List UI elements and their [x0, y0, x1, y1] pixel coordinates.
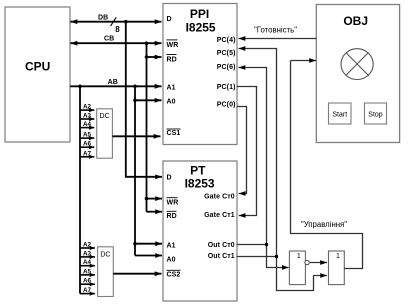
wire A4 upper	[80, 121, 94, 128]
node CB junction	[145, 41, 149, 45]
svg-text:A6: A6	[83, 141, 92, 148]
wire Upravlinnia control to OBJ	[291, 61, 363, 269]
node DB junction	[124, 20, 128, 24]
wire AB vertical to DC decoders	[79, 86, 81, 293]
wire A2 upper	[80, 104, 94, 111]
svg-text:A0: A0	[167, 99, 176, 106]
wire PC(1) to Gate Ct1	[237, 87, 257, 216]
node PT WR junction	[145, 197, 149, 201]
svg-text:1: 1	[336, 253, 340, 260]
decoder DC2	[98, 247, 114, 297]
wire bubble to gate DD2	[310, 262, 327, 264]
svg-text:I8253: I8253	[185, 176, 215, 190]
wire to PT A0	[135, 255, 162, 257]
PPI box U1	[163, 4, 237, 145]
wire Gotovnist PC(4) from OBJ	[239, 25, 317, 38]
wire A5 upper	[80, 132, 94, 139]
svg-text:"Готовність": "Готовність"	[254, 25, 297, 34]
Stop button	[365, 103, 387, 124]
wire A7 lower	[80, 287, 95, 294]
wire to PT WR	[147, 198, 163, 200]
svg-text:Gate Ст1: Gate Ст1	[204, 212, 235, 219]
wire CB vertical	[146, 43, 148, 212]
svg-text:A3: A3	[83, 113, 92, 120]
wire to PPI A0	[135, 99, 162, 101]
svg-text:A1: A1	[167, 84, 176, 91]
wire AB vertical to A1 A0	[134, 86, 136, 255]
svg-text:RD: RD	[167, 56, 177, 63]
svg-text:CPU: CPU	[25, 60, 50, 74]
svg-text:1: 1	[297, 253, 301, 260]
svg-text:A5: A5	[83, 268, 92, 275]
wire A3 lower	[80, 250, 95, 257]
svg-text:PC(5): PC(5)	[217, 50, 236, 57]
PT pin CS2	[167, 270, 181, 278]
svg-text:PC(4): PC(4)	[217, 37, 236, 44]
wire PC(0) to Gate Ct0	[237, 107, 247, 194]
svg-text:PC(1): PC(1)	[217, 84, 236, 91]
svg-text:A6: A6	[83, 278, 92, 285]
PPI pin RD	[167, 55, 177, 64]
svg-text:A3: A3	[83, 250, 92, 257]
wire PC(6) net	[239, 68, 289, 268]
OBJ box	[316, 5, 399, 143]
svg-text:Out Ст0: Out Ст0	[208, 242, 235, 249]
svg-text:Stop: Stop	[368, 112, 383, 119]
svg-text:DC: DC	[100, 113, 110, 120]
node AB junction right	[133, 85, 137, 89]
PPI pin WR	[167, 40, 179, 49]
decoder DC1	[97, 109, 113, 158]
node PPI RD junction	[145, 55, 149, 59]
wire A6 upper	[80, 141, 94, 148]
Start button	[329, 103, 352, 124]
wire to PT RD	[147, 211, 163, 213]
bus width slash 8	[111, 17, 121, 34]
svg-text:A5: A5	[83, 132, 92, 139]
wire DB bus	[71, 14, 162, 21]
svg-text:A4: A4	[83, 259, 92, 266]
gate DD2 OR	[329, 251, 345, 285]
svg-text:DC: DC	[100, 251, 110, 258]
svg-text:I8255: I8255	[186, 20, 216, 34]
svg-text:PC(6): PC(6)	[217, 64, 236, 71]
svg-text:A1: A1	[167, 242, 176, 249]
wire A6 lower	[80, 278, 95, 285]
svg-text:PT: PT	[190, 163, 206, 177]
wire CS2 select	[113, 273, 161, 275]
node Out Ct1 junction	[275, 255, 278, 258]
wire PC(5) net	[239, 49, 328, 291]
wire to PT A1	[135, 243, 162, 245]
svg-text:OBJ: OBJ	[343, 14, 368, 28]
wire A7 upper	[80, 150, 94, 157]
svg-text:DB: DB	[98, 14, 108, 21]
svg-text:WR: WR	[167, 42, 179, 49]
svg-text:D: D	[167, 175, 172, 182]
node PT A1 junction	[133, 242, 137, 246]
lamp indicator	[341, 49, 373, 80]
svg-text:"Управління": "Управління"	[301, 220, 347, 229]
svg-text:A7: A7	[83, 287, 92, 294]
wire CB bus	[71, 36, 162, 44]
svg-text:Start: Start	[332, 112, 347, 119]
wire Out Ct0	[237, 244, 267, 246]
svg-text:PPI: PPI	[190, 7, 209, 21]
svg-text:WR: WR	[167, 200, 179, 207]
wire AB bus	[70, 79, 161, 86]
CPU box	[5, 7, 70, 142]
svg-text:D: D	[167, 16, 172, 23]
wire A2 lower	[80, 242, 95, 249]
gate DD1 NOT	[289, 251, 305, 285]
PT box U2	[163, 161, 237, 301]
wire Out Ct1	[237, 256, 277, 258]
svg-text:A2: A2	[83, 242, 92, 249]
svg-text:A2: A2	[83, 104, 92, 111]
svg-text:CS1: CS1	[167, 130, 181, 137]
svg-text:Gate Ст0: Gate Ст0	[204, 193, 235, 200]
svg-text:8: 8	[115, 25, 120, 34]
PPI pin CS1	[167, 129, 181, 137]
wire A5 lower	[80, 268, 95, 275]
svg-text:PC(0): PC(0)	[217, 102, 236, 109]
svg-text:CS2: CS2	[167, 271, 181, 278]
inverter bubble	[305, 260, 309, 264]
svg-text:A0: A0	[167, 257, 176, 264]
wire DB vertical to PT D	[126, 22, 162, 177]
node A0 junction	[133, 99, 137, 103]
svg-text:Out Ст1: Out Ст1	[208, 253, 235, 260]
svg-text:CB: CB	[104, 36, 114, 43]
PT pin RD	[167, 211, 177, 220]
wire A3 upper	[80, 113, 94, 120]
svg-text:AB: AB	[108, 79, 118, 86]
svg-text:RD: RD	[167, 213, 177, 220]
wire CS1 select	[112, 135, 160, 137]
svg-text:A7: A7	[83, 150, 92, 157]
PT pin WR	[167, 198, 179, 207]
wire to PPI RD	[147, 56, 162, 58]
svg-text:A4: A4	[83, 121, 92, 128]
node AB junction left	[78, 85, 82, 89]
node Out Ct0 junction	[265, 243, 268, 246]
wire A4 lower	[80, 259, 95, 266]
